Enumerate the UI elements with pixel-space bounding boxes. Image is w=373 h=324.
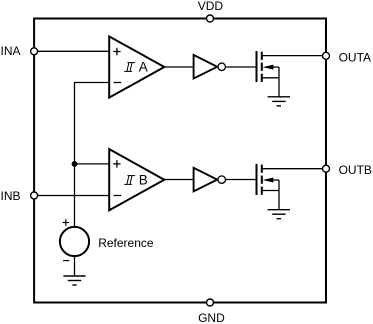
svg-text:Reference: Reference	[98, 236, 154, 250]
comparator B noninverting + label	[113, 160, 120, 167]
wire inverter B output to MOSFET QB gate	[225, 179, 256, 181]
transistor QA output MOSFET A	[257, 51, 280, 97]
svg-text:A: A	[139, 60, 148, 75]
comparator A inverting - label	[114, 82, 122, 84]
ground symbol for MOSFET QA source	[268, 97, 290, 106]
voltage source V1 reference	[60, 227, 89, 256]
wire reference rail to comparator B + input	[75, 163, 110, 165]
svg-text:B: B	[139, 173, 148, 188]
reference + polarity mark	[63, 219, 70, 226]
wire comparator A output to inverter A	[164, 66, 193, 68]
comparator B inverting - label	[114, 195, 122, 197]
wire MOSFET QA drain to OUTA node	[262, 55, 326, 57]
comparator A hysteresis symbol	[124, 63, 135, 72]
comparator B hysteresis symbol	[124, 176, 135, 185]
transistor QB output MOSFET B	[257, 164, 280, 210]
wire inverter A output to MOSFET QA gate	[225, 66, 256, 68]
svg-text:VDD: VDD	[198, 0, 224, 13]
pin node GND	[207, 299, 214, 306]
op-amp U1B comparator B	[109, 149, 164, 210]
svg-text:GND: GND	[198, 311, 225, 324]
pin node OUTB	[323, 165, 330, 172]
svg-text:INA: INA	[1, 44, 21, 58]
wire INA input (node to comparator A + input)	[34, 50, 109, 52]
wire comparator A inverting input to reference rail	[75, 83, 110, 228]
reference - polarity mark	[63, 260, 69, 262]
inverter B	[194, 168, 226, 192]
svg-text:OUTB: OUTB	[339, 163, 372, 177]
IC boundary box	[34, 19, 326, 303]
wire comparator B output to inverter B	[164, 179, 193, 181]
wire reference source to ground	[74, 256, 76, 276]
pin node VDD	[207, 15, 214, 22]
pin node OUTA	[323, 52, 330, 59]
pin node INB	[31, 192, 38, 199]
wire MOSFET QB drain to OUTB node	[262, 168, 326, 170]
node junction dot (reference to comparator B)	[72, 161, 78, 167]
wire INB input (node to comparator B - input)	[34, 195, 109, 197]
ground symbol for reference source	[63, 276, 85, 285]
svg-text:OUTA: OUTA	[339, 51, 371, 65]
op-amp U1A comparator A	[109, 36, 164, 97]
ground symbol for MOSFET QB source	[268, 210, 290, 219]
comparator A noninverting + label	[113, 48, 120, 55]
inverter A	[194, 55, 226, 79]
pin node INA	[31, 48, 38, 55]
svg-text:INB: INB	[1, 189, 21, 203]
